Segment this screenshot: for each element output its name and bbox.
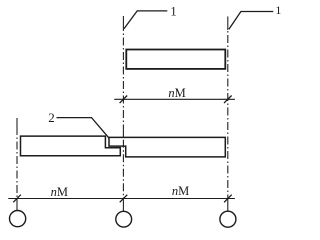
svg-text:1: 1 [275,3,281,17]
svg-text:nM: nM [51,185,68,199]
svg-text:nM: nM [172,184,189,198]
svg-text:nM: nM [168,86,185,100]
svg-text:2: 2 [48,110,55,125]
svg-text:1: 1 [170,5,176,19]
